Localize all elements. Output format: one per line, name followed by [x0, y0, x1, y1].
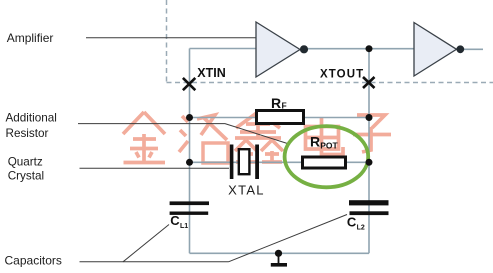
- svg-text:Additional: Additional: [6, 112, 57, 125]
- svg-text:F: F: [282, 101, 287, 111]
- svg-text:XTAL: XTAL: [228, 182, 265, 197]
- svg-text:Resistor: Resistor: [6, 127, 49, 140]
- svg-text:R: R: [271, 95, 281, 111]
- svg-text:XTIN: XTIN: [197, 66, 225, 80]
- svg-text:XTOUT: XTOUT: [320, 68, 364, 80]
- svg-text:POT: POT: [320, 140, 338, 150]
- svg-text:Amplifier: Amplifier: [7, 31, 54, 45]
- svg-text:Quartz: Quartz: [8, 156, 43, 169]
- svg-text:Crystal: Crystal: [8, 170, 44, 183]
- svg-text:R: R: [310, 134, 320, 150]
- svg-text:C: C: [347, 214, 357, 229]
- svg-text:L1: L1: [180, 223, 188, 230]
- svg-text:Capacitors: Capacitors: [5, 253, 62, 267]
- svg-text:L2: L2: [357, 224, 365, 231]
- svg-text:C: C: [170, 213, 180, 228]
